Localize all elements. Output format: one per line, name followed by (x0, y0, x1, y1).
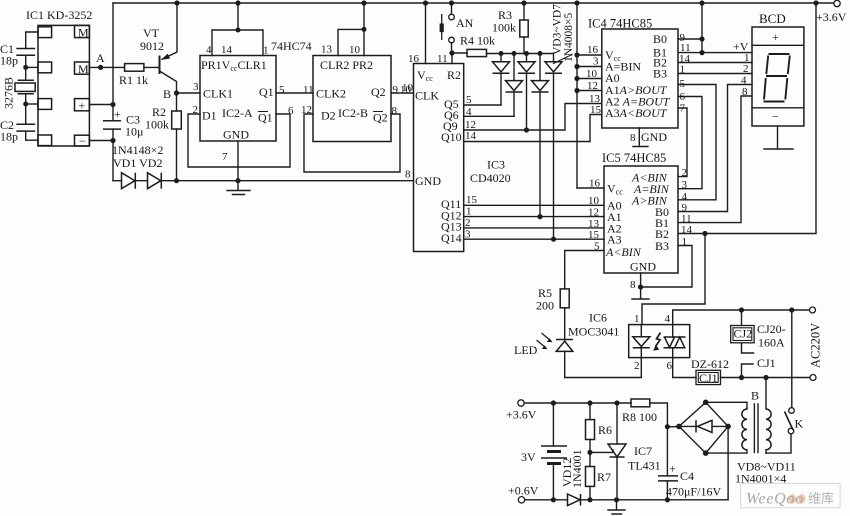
svg-text:GND: GND (641, 130, 667, 144)
regulator IC7 TL431 (616, 403, 618, 444)
wire IC3 pin16 from rail (425, 3, 427, 64)
resistor R3 100k (523, 3, 525, 20)
svg-text:Q2: Q2 (373, 111, 388, 125)
wire M pin to R1 (node A) (89, 66, 124, 68)
svg-text:3V: 3V (521, 450, 536, 464)
svg-text:6: 6 (680, 91, 686, 103)
svg-text:3: 3 (193, 81, 199, 93)
svg-text:1: 1 (466, 206, 472, 218)
node top rail vcc bus (574, 0, 579, 5)
svg-text:CLK2: CLK2 (316, 87, 346, 101)
svg-text:VD1 VD2: VD1 VD2 (113, 156, 162, 170)
diode VD5 (top row 2) (526, 54, 528, 62)
svg-text:BCD: BCD (759, 11, 786, 26)
BCD ground (764, 126, 793, 149)
svg-text:R8 100: R8 100 (622, 410, 657, 424)
wire Q1 to CLK2 (276, 92, 313, 94)
svg-text:Vcc: Vcc (607, 182, 623, 197)
diode VD4 (bottom row 1) (513, 54, 515, 81)
svg-text:IC1 KD-3252: IC1 KD-3252 (26, 8, 92, 22)
transistor VT base bar (159, 56, 161, 75)
node top rail VT emitter (174, 0, 179, 5)
node - pin (110, 138, 115, 143)
svg-text:Q1: Q1 (258, 111, 273, 125)
svg-text:M: M (78, 26, 89, 40)
wire Q10 to IC4 A3 (464, 115, 602, 142)
svg-text:CLK1: CLK1 (203, 87, 233, 101)
wire IC1 - pin to vertical (89, 140, 113, 142)
svg-text:8: 8 (392, 105, 398, 117)
wire Q11 to IC5 A0 (464, 204, 604, 206)
wire R1 to VT base (144, 66, 160, 68)
IC1 pin box M top (75, 25, 90, 37)
node top rail R3 (521, 0, 526, 5)
wire Q5 (464, 104, 501, 106)
wire IC6 pin4 up and right to AC (673, 310, 812, 337)
svg-text:5: 5 (680, 78, 686, 90)
wire R2 to ground rail (176, 129, 178, 181)
wire IC3 pin11 (451, 53, 453, 64)
svg-text:TL431: TL431 (628, 459, 661, 473)
svg-text:3: 3 (682, 179, 688, 191)
svg-text:+0.6V: +0.6V (508, 484, 539, 498)
IC1 pin box M mid (75, 62, 90, 74)
svg-text:1N4008×5: 1N4008×5 (563, 12, 575, 62)
svg-text:14: 14 (221, 44, 233, 56)
svg-text:15: 15 (590, 104, 602, 116)
flip-flop IC2-A block (200, 56, 276, 142)
svg-text:8: 8 (742, 86, 748, 98)
svg-text:7: 7 (222, 151, 228, 163)
svg-text:470μF/16V: 470μF/16V (666, 485, 721, 499)
svg-text:B: B (751, 389, 759, 403)
diode VD6 (bottom row 2) (539, 54, 541, 81)
svg-text:Q14: Q14 (441, 231, 462, 245)
BCD pin 4 wire to IC5 B0 (678, 85, 752, 212)
wire IC4 pin3 (577, 66, 602, 68)
node A (98, 65, 103, 70)
svg-text:IC7: IC7 (634, 444, 652, 458)
battery 3V (552, 403, 554, 446)
svg-text:2: 2 (743, 63, 749, 75)
comparator IC4 74HC85 block (602, 29, 678, 128)
svg-text:+3.6V: +3.6V (816, 10, 847, 24)
svg-text:VD3~VD7: VD3~VD7 (552, 4, 564, 55)
diode VD1 (122, 173, 136, 189)
wire IC4 B0 pin9 (678, 38, 702, 40)
svg-text:D2: D2 (321, 109, 336, 123)
svg-text:5: 5 (466, 94, 472, 106)
svg-text:74HC74: 74HC74 (271, 39, 312, 53)
wire IC5 pin16 to vcc bus (577, 187, 604, 189)
diode VD2 (148, 173, 162, 189)
capacitor C4 (658, 476, 678, 481)
svg-text:+: + (79, 99, 86, 113)
wire R8 to bridge (650, 403, 668, 427)
svg-text:LED: LED (514, 343, 538, 357)
diode VD3 (top row 1) (500, 54, 502, 62)
core (754, 404, 758, 453)
svg-text:A3A<BOUT: A3A<BOUT (605, 106, 668, 120)
leader line for VD3-VD7 label (554, 55, 573, 64)
ground IC2 (227, 181, 250, 195)
wire bottom top rail (524, 402, 631, 404)
node B (174, 90, 179, 95)
wire node to R4 (452, 52, 467, 54)
svg-text:Vcc: Vcc (417, 68, 433, 83)
terminal +0.6V (518, 497, 524, 503)
comparator IC5 74HC85 block (604, 166, 678, 273)
wire IC6 pin6 down to CJ1 (673, 348, 696, 378)
svg-text:12: 12 (587, 80, 598, 92)
svg-text:CD4020: CD4020 (470, 171, 511, 185)
svg-text:100k: 100k (492, 21, 516, 35)
crystal 3276B (18, 80, 34, 93)
node top rail IC2-A vcc (235, 0, 240, 5)
svg-text:C4: C4 (680, 469, 694, 483)
svg-text:M: M (78, 62, 89, 76)
transistor VT collector (160, 71, 177, 111)
svg-text:2: 2 (682, 167, 688, 179)
wire Q12 to IC5 A1 (464, 216, 604, 218)
svg-text:CLK: CLK (415, 89, 439, 103)
svg-text:9012: 9012 (140, 39, 164, 53)
IC1 left pin squares (38, 27, 52, 38)
diode VD7 (top row 3) (553, 54, 555, 62)
BCD pin 8 wire to IC5 B1 (678, 96, 752, 223)
wire IC4 A<BOUT pin7 down to IC5 (678, 108, 687, 177)
wire +3.6V right rail down to IC5 B2 (678, 3, 816, 234)
svg-text:CJ2: CJ2 (734, 327, 753, 341)
IC6 internal triac (664, 337, 686, 348)
svg-text:1: 1 (680, 64, 686, 76)
wire IC4 B2 pin14 to BCD 1 (678, 62, 752, 64)
svg-text:+3.6V: +3.6V (506, 408, 537, 422)
svg-text:10: 10 (349, 44, 361, 56)
7-segment digit (764, 54, 790, 102)
svg-text:R2: R2 (447, 68, 461, 82)
svg-text:18p: 18p (0, 130, 18, 144)
IC1 pin box - (75, 135, 90, 146)
LED arrows (542, 334, 551, 341)
wire IC5 A<BIN pin5 down to R5 (565, 251, 604, 289)
TL431 ref line (590, 450, 613, 452)
svg-text:3276B: 3276B (2, 77, 16, 109)
svg-text:2: 2 (634, 360, 640, 372)
svg-text:Q1: Q1 (259, 85, 274, 99)
bridge rectifier VD8~VD11 (679, 402, 728, 453)
svg-text:VT: VT (143, 26, 160, 40)
svg-text:B: B (163, 87, 171, 101)
svg-text:IC3: IC3 (487, 158, 505, 172)
svg-text:16: 16 (587, 44, 599, 56)
svg-text:100k: 100k (145, 118, 169, 132)
wire diode bus (487, 53, 554, 55)
wire C3 bottom to ground rail corner (112, 129, 114, 181)
node top rail AN (449, 0, 454, 5)
svg-text:D1: D1 (202, 109, 217, 123)
node crystal top (23, 65, 28, 70)
svg-text:14: 14 (465, 130, 477, 142)
node R2 bottom (174, 178, 179, 183)
wire B0/B1 riser to top rail (701, 3, 703, 53)
node + pin (110, 102, 115, 107)
svg-text:WeeQoo: WeeQoo (746, 491, 804, 508)
svg-text:K: K (795, 417, 804, 431)
svg-text:8: 8 (630, 279, 636, 291)
node crystal bottom (23, 102, 28, 107)
resistor R5 200 (560, 289, 569, 308)
svg-text:15: 15 (466, 194, 478, 206)
svg-text:IC4 74HC85: IC4 74HC85 (588, 17, 652, 31)
svg-text:10: 10 (588, 195, 600, 207)
wire bottom rail (525, 499, 728, 501)
svg-text:6: 6 (667, 360, 673, 372)
wire IC4 pin12 (577, 90, 602, 92)
wire left vertical from top rail to C3 (112, 3, 114, 121)
wire IC5 B2 node down to IC6 pin1 (642, 234, 705, 325)
svg-text:CJ1: CJ1 (757, 356, 776, 370)
resistor R4 10k (467, 49, 487, 56)
resistor R6 (589, 403, 591, 420)
wire D2 feedback loop from Q2bar (304, 114, 400, 172)
bridge inner diode (679, 425, 728, 427)
resistor R2 (172, 111, 182, 129)
wire Vcc bus x=577 (576, 3, 578, 188)
relay coil CJ2 (739, 307, 744, 312)
wire Q2 to IC3 CLK (391, 92, 414, 94)
wire Q9 to IC4 A2 (464, 104, 602, 131)
svg-text:R4 10k: R4 10k (460, 34, 495, 48)
wire top +3.6V rail (113, 2, 834, 4)
wire Q13 to IC5 A2 (464, 227, 604, 229)
svg-text:18p: 18p (0, 54, 18, 68)
wire IC4 pin10 (577, 78, 602, 80)
flip-flop IC2-B block (313, 56, 391, 142)
svg-text:CJ20-: CJ20- (757, 322, 786, 336)
svg-text:4: 4 (206, 44, 212, 56)
svg-text:7: 7 (680, 103, 686, 115)
svg-text:MOC3041: MOC3041 (568, 325, 619, 339)
svg-text:1N4001: 1N4001 (570, 449, 584, 488)
capacitor C3 (103, 121, 121, 129)
svg-text:11: 11 (303, 84, 314, 96)
diode VD12 (568, 494, 581, 506)
optocoupler IC6 MOC3041 block (629, 325, 690, 358)
svg-text:160A: 160A (758, 336, 785, 350)
svg-text:B3: B3 (653, 67, 667, 81)
svg-text:3: 3 (593, 56, 599, 68)
wire B to CLK1 (177, 92, 201, 94)
svg-text:+: + (772, 30, 779, 44)
wire CJ1 to AC terminal (721, 377, 811, 379)
wire bus to pin3 (26, 103, 38, 105)
wire AN to node 11 (451, 43, 453, 53)
contact CJ1 stub (742, 364, 754, 378)
capacitor C1 (16, 49, 35, 56)
primary winding (765, 378, 767, 410)
svg-text:5: 5 (279, 84, 285, 96)
pushbutton AN (451, 3, 453, 14)
ground bottom (608, 500, 625, 514)
wire left crystal bus (26, 32, 38, 140)
svg-text:GND: GND (415, 174, 441, 188)
svg-text:1N4148×2: 1N4148×2 (112, 143, 163, 157)
svg-text:IC2-A: IC2-A (222, 106, 253, 120)
IC5 GND pin 8 (632, 273, 649, 299)
AC220V terminals (789, 307, 794, 312)
svg-text:10: 10 (586, 68, 598, 80)
svg-text:6: 6 (288, 105, 294, 117)
svg-text:B0: B0 (653, 32, 667, 46)
node top rail right drop (813, 0, 818, 5)
svg-text:+: + (114, 107, 121, 121)
switch K (791, 310, 793, 408)
counter IC3 CD4020 block (414, 64, 464, 252)
wire LED to IC6 pin2 (565, 358, 642, 378)
resistor R7 (586, 467, 595, 487)
wire C4 riser (666, 427, 668, 476)
svg-text:PR1VccCLR1: PR1VccCLR1 (201, 58, 267, 73)
node top rail B0B1 (699, 0, 704, 5)
LED (556, 340, 573, 352)
resistor R1 (125, 64, 144, 72)
IC6 internal LED (640, 325, 642, 337)
svg-text:16: 16 (408, 53, 420, 65)
svg-text:16: 16 (589, 178, 601, 190)
svg-text:10μ: 10μ (125, 125, 143, 139)
wire IC4 B1 pin11 to BCD +V (678, 52, 752, 54)
IC1 KD-3252 block (38, 25, 89, 146)
svg-text:CJ1: CJ1 (699, 371, 718, 385)
svg-text:15: 15 (588, 229, 600, 241)
secondary winding (706, 402, 747, 409)
resistor R8 100 (631, 399, 650, 407)
node top rail IC2-B vcc (361, 0, 366, 5)
svg-text:GND: GND (630, 260, 656, 274)
terminal +3.6V top right (834, 0, 840, 6)
svg-text:11: 11 (437, 53, 448, 65)
svg-text:13: 13 (321, 44, 333, 56)
wire R3 bottom to diode bus (523, 37, 525, 54)
svg-text:GND: GND (223, 128, 249, 142)
svg-text:4: 4 (741, 75, 747, 87)
svg-text:Q10: Q10 (441, 130, 462, 144)
wire IC2-A Vcc bracket (212, 3, 263, 56)
svg-text:R1 1k: R1 1k (119, 73, 148, 87)
svg-text:B3: B3 (655, 239, 669, 253)
BCD display block (752, 27, 804, 126)
svg-text:14: 14 (681, 224, 693, 236)
svg-text:A<BIN: A<BIN (605, 245, 642, 259)
transistor VT emitter (from top rail) (162, 3, 177, 59)
svg-text:AN: AN (456, 16, 474, 30)
svg-text:AC220V: AC220V (809, 323, 823, 368)
svg-text:R7: R7 (597, 470, 611, 484)
terminal +3.6V bottom (518, 400, 524, 406)
wire D1 feedback loop from Q1bar (188, 114, 290, 167)
IC1 pin box + (75, 99, 90, 111)
svg-text:IC5 74HC85: IC5 74HC85 (602, 151, 666, 165)
svg-text:8: 8 (405, 169, 411, 181)
capacitor C2 (16, 124, 35, 131)
wire bridge right corner down to rail (727, 426, 729, 499)
wire R5 to LED (564, 308, 566, 340)
svg-text:A: A (96, 51, 105, 65)
wire IC1 + pin to vertical (89, 104, 113, 106)
svg-text:−: − (772, 110, 779, 124)
wire Q6 (464, 115, 514, 117)
node top rail IC3 pin16 (423, 0, 428, 5)
svg-text:IC2-B: IC2-B (338, 106, 368, 120)
IC4 GND pin 8 (633, 128, 648, 147)
svg-text:9: 9 (393, 84, 399, 96)
svg-text:12: 12 (588, 207, 599, 219)
svg-text:1: 1 (634, 313, 640, 325)
wire bus to pin2 (26, 66, 38, 68)
svg-text:1: 1 (263, 45, 269, 57)
svg-text:200: 200 (536, 299, 554, 313)
wire IC4 pin16 (577, 54, 602, 56)
svg-text:R6: R6 (598, 423, 612, 437)
svg-text:10: 10 (402, 82, 414, 94)
svg-text:Q2: Q2 (371, 85, 386, 99)
svg-text:−: − (79, 134, 86, 148)
wire IC4 A=BOUT pin6 down to IC5 (678, 97, 702, 189)
svg-text:IC6: IC6 (589, 311, 607, 325)
IC6 light arrow (656, 333, 661, 347)
watermark WeeQoo (741, 483, 841, 507)
wire IC4 A>BOUT pin5 down to IC5 (678, 85, 716, 200)
wire ground rail (bottom of oscillator section) (113, 180, 414, 182)
svg-text:+: + (669, 462, 676, 476)
svg-text:CLR2 PR2: CLR2 PR2 (320, 58, 373, 72)
svg-text:8: 8 (630, 132, 636, 144)
wire IC2-A GND pin7 (237, 141, 239, 181)
wire Q14 to IC5 A3 (464, 238, 604, 240)
svg-text:DZ-612: DZ-612 (691, 357, 729, 371)
relay box DZ-612 CJ1 (696, 370, 721, 384)
svg-text:4: 4 (665, 313, 671, 325)
svg-text:维库: 维库 (808, 491, 834, 506)
wire IC5 B3 loop to GND node (641, 246, 692, 288)
wire IC2-B Vcc bracket (338, 3, 364, 56)
wire IC4 B3 pin1 to BCD 2 (678, 73, 752, 75)
